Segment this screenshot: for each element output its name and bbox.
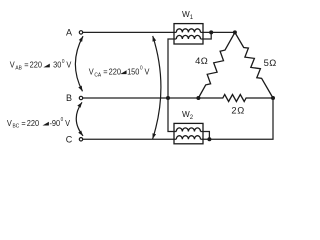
svg-text:2: 2 bbox=[231, 105, 236, 116]
wire W2 voltage coil to node on line B bbox=[168, 98, 176, 132]
junction node on line A bbox=[209, 30, 213, 34]
wattmeter W2 box bbox=[174, 123, 203, 143]
node delta bottom-right vertex bbox=[271, 96, 275, 100]
label VCA equals 220 angle 150 V bbox=[89, 65, 150, 78]
svg-text:B: B bbox=[66, 93, 72, 103]
svg-text:W2: W2 bbox=[182, 110, 194, 121]
junction node on line C bbox=[207, 137, 211, 141]
wire line C from terminal to W2 bbox=[83, 138, 177, 140]
svg-text:220: 220 bbox=[27, 118, 40, 128]
resistor 2 ohm bottom delta side bbox=[198, 95, 273, 102]
junction node on line B bbox=[166, 96, 170, 100]
svg-text:-90: -90 bbox=[49, 118, 60, 128]
svg-text:0: 0 bbox=[61, 117, 64, 123]
voltage arrow VBC arc bbox=[76, 102, 83, 136]
W2 voltage coil bbox=[176, 128, 200, 132]
svg-text:C: C bbox=[66, 134, 73, 144]
wire line B from terminal to delta bbox=[83, 97, 199, 99]
svg-text:V: V bbox=[65, 118, 71, 128]
svg-text:0: 0 bbox=[140, 65, 143, 71]
svg-text:0: 0 bbox=[62, 59, 65, 65]
voltage arrow VAB arrowheads bbox=[78, 36, 83, 91]
svg-text:30: 30 bbox=[53, 60, 62, 70]
wire W1 voltage coil to node on line A bbox=[201, 32, 212, 39]
svg-text:AB: AB bbox=[15, 65, 22, 71]
svg-text:150: 150 bbox=[127, 67, 140, 77]
svg-text:V: V bbox=[66, 60, 72, 70]
svg-text:Ω: Ω bbox=[201, 55, 208, 66]
wire W1 voltage coil to node on line B bbox=[168, 39, 176, 98]
wire line A from terminal to W1 bbox=[83, 31, 177, 33]
wire line C from W2 to delta bbox=[201, 98, 274, 139]
svg-text:W1: W1 bbox=[182, 10, 194, 21]
svg-text:CA: CA bbox=[94, 72, 101, 78]
terminal C bbox=[79, 138, 82, 141]
svg-text:4: 4 bbox=[195, 55, 200, 66]
label VBC equals 220 angle minus 90 V bbox=[7, 117, 71, 130]
svg-text:=: = bbox=[24, 60, 29, 70]
svg-text:=: = bbox=[21, 118, 26, 128]
svg-text:BC: BC bbox=[12, 123, 19, 129]
wire line A from W1 to delta bbox=[201, 31, 235, 33]
terminal B bbox=[79, 96, 82, 99]
wattmeter W1 box bbox=[174, 24, 203, 44]
svg-text:V: V bbox=[144, 67, 150, 77]
W1 voltage coil bbox=[176, 35, 200, 39]
terminal A bbox=[79, 31, 82, 34]
svg-text:Ω: Ω bbox=[237, 105, 244, 116]
svg-text:A: A bbox=[66, 27, 72, 37]
svg-text:220: 220 bbox=[109, 67, 122, 77]
svg-text:5: 5 bbox=[264, 57, 269, 68]
resistor 5 ohm right delta arm bbox=[235, 32, 273, 98]
resistor 4 ohm left delta arm bbox=[198, 32, 235, 98]
voltage arrow VBC arrowheads bbox=[77, 102, 83, 136]
label VAB equals 220 angle 30 V bbox=[10, 59, 72, 72]
node delta top vertex bbox=[233, 30, 237, 34]
voltage arrow VCA arrowheads bbox=[153, 36, 157, 139]
wire W2 voltage coil to node on line C bbox=[201, 132, 210, 140]
svg-text:=: = bbox=[103, 67, 108, 77]
voltage arrow VCA arc bbox=[153, 36, 161, 139]
svg-text:Ω: Ω bbox=[269, 57, 276, 68]
W1 current coil bbox=[176, 29, 200, 33]
W2 current coil bbox=[176, 136, 200, 140]
voltage arrow VAB arc bbox=[75, 36, 83, 91]
svg-text:220: 220 bbox=[30, 60, 43, 70]
node delta bottom-left vertex bbox=[196, 96, 200, 100]
